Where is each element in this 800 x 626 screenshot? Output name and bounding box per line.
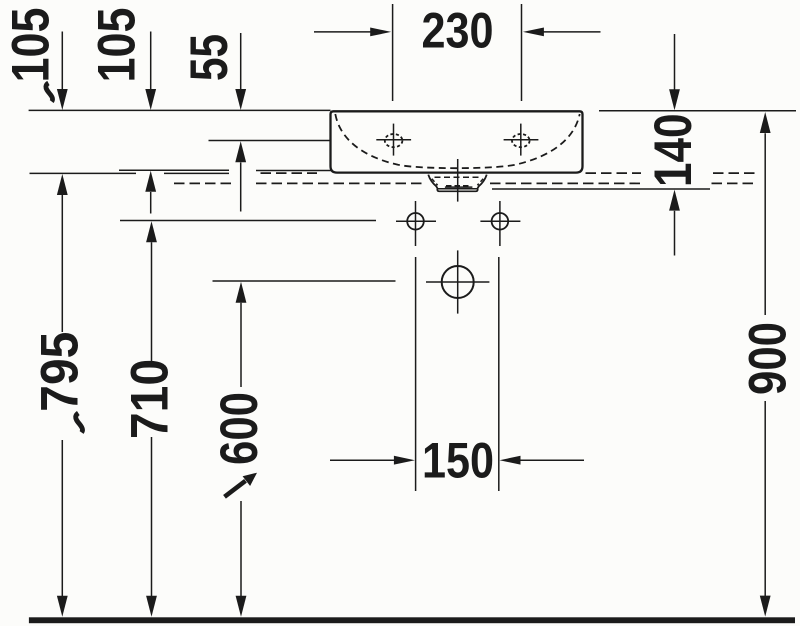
mounting hole left	[396, 201, 436, 246]
drain trap dashed inner top	[435, 176, 483, 178]
svg-text:105: 105	[88, 8, 147, 83]
text mask 710	[128, 362, 173, 437]
dimension 55 down arrow	[235, 33, 246, 110]
basin inner rim dashed curve	[335, 114, 579, 168]
dimension 150 extension line left	[415, 257, 417, 491]
svg-text:710: 710	[121, 359, 180, 439]
drain centerline	[457, 159, 459, 202]
svg-text:600: 600	[210, 392, 269, 465]
faucet hole left	[376, 124, 411, 156]
reference line drain 600	[213, 280, 396, 282]
drain trap lip top	[438, 188, 478, 190]
sink outline	[331, 111, 583, 172]
dimension 230 arrow left	[314, 28, 391, 37]
dimension 140 down arrow	[669, 34, 680, 110]
dimension 105 up arrow	[145, 171, 156, 214]
dimension ~795 line	[57, 174, 68, 617]
drain trap lip bottom	[437, 189, 477, 191]
dimension 600 line	[236, 282, 247, 617]
reference line top-right (rim level)	[599, 110, 796, 112]
dashed countertop top line	[261, 172, 318, 174]
drain trap outer right side	[477, 175, 487, 190]
reference line top-left (rim level)	[29, 109, 331, 111]
dimension 900 line	[760, 112, 771, 617]
dimension 230 extension line right	[521, 4, 523, 101]
svg-text:105: 105	[2, 8, 61, 83]
reference line 140 bottom	[492, 188, 710, 190]
drain circle	[426, 250, 489, 313]
dimension 140 up arrow	[669, 190, 680, 256]
drain trap outer left side	[428, 175, 438, 190]
text mask 900	[743, 315, 788, 401]
tilde of ~795	[76, 413, 83, 432]
mounting hole right	[480, 201, 520, 246]
reference line faucet height 55	[209, 140, 331, 142]
svg-text:795: 795	[31, 332, 90, 412]
dimension 150 arrow right	[500, 456, 585, 465]
text mask ~795	[35, 332, 83, 440]
dimension 150 arrow left	[330, 456, 415, 465]
svg-text:900: 900	[739, 322, 798, 395]
svg-text:55: 55	[180, 34, 239, 81]
reference line mounting holes 710	[120, 220, 376, 222]
tilde of ~105	[46, 83, 53, 102]
adjustable height slanted arrow	[225, 473, 258, 497]
svg-text:150: 150	[422, 432, 494, 489]
drain trap dashed diagonal right	[477, 179, 483, 185]
dimension 150 extension line right	[498, 257, 500, 491]
text mask 600	[217, 387, 262, 501]
drain trap dashed bottom	[446, 185, 470, 187]
svg-text:140: 140	[644, 114, 703, 188]
dimension ~105 down arrow	[57, 32, 68, 111]
floor line	[29, 617, 795, 623]
dimension 105 down arrow	[145, 32, 156, 111]
dimension 710 line	[146, 221, 157, 617]
reference line 105 under-basin	[119, 169, 229, 171]
dashed countertop bottom line	[174, 182, 232, 184]
dimension 230 extension line left	[392, 4, 394, 101]
faucet hole right	[504, 124, 539, 156]
drain trap inner line	[445, 186, 473, 188]
dimension 55 up arrow	[235, 141, 246, 211]
reference line ~105 left ledge	[30, 172, 137, 174]
svg-text:230: 230	[422, 1, 494, 58]
dimension 230 arrow right	[523, 28, 601, 37]
drain trap dashed diagonal left	[432, 179, 438, 185]
